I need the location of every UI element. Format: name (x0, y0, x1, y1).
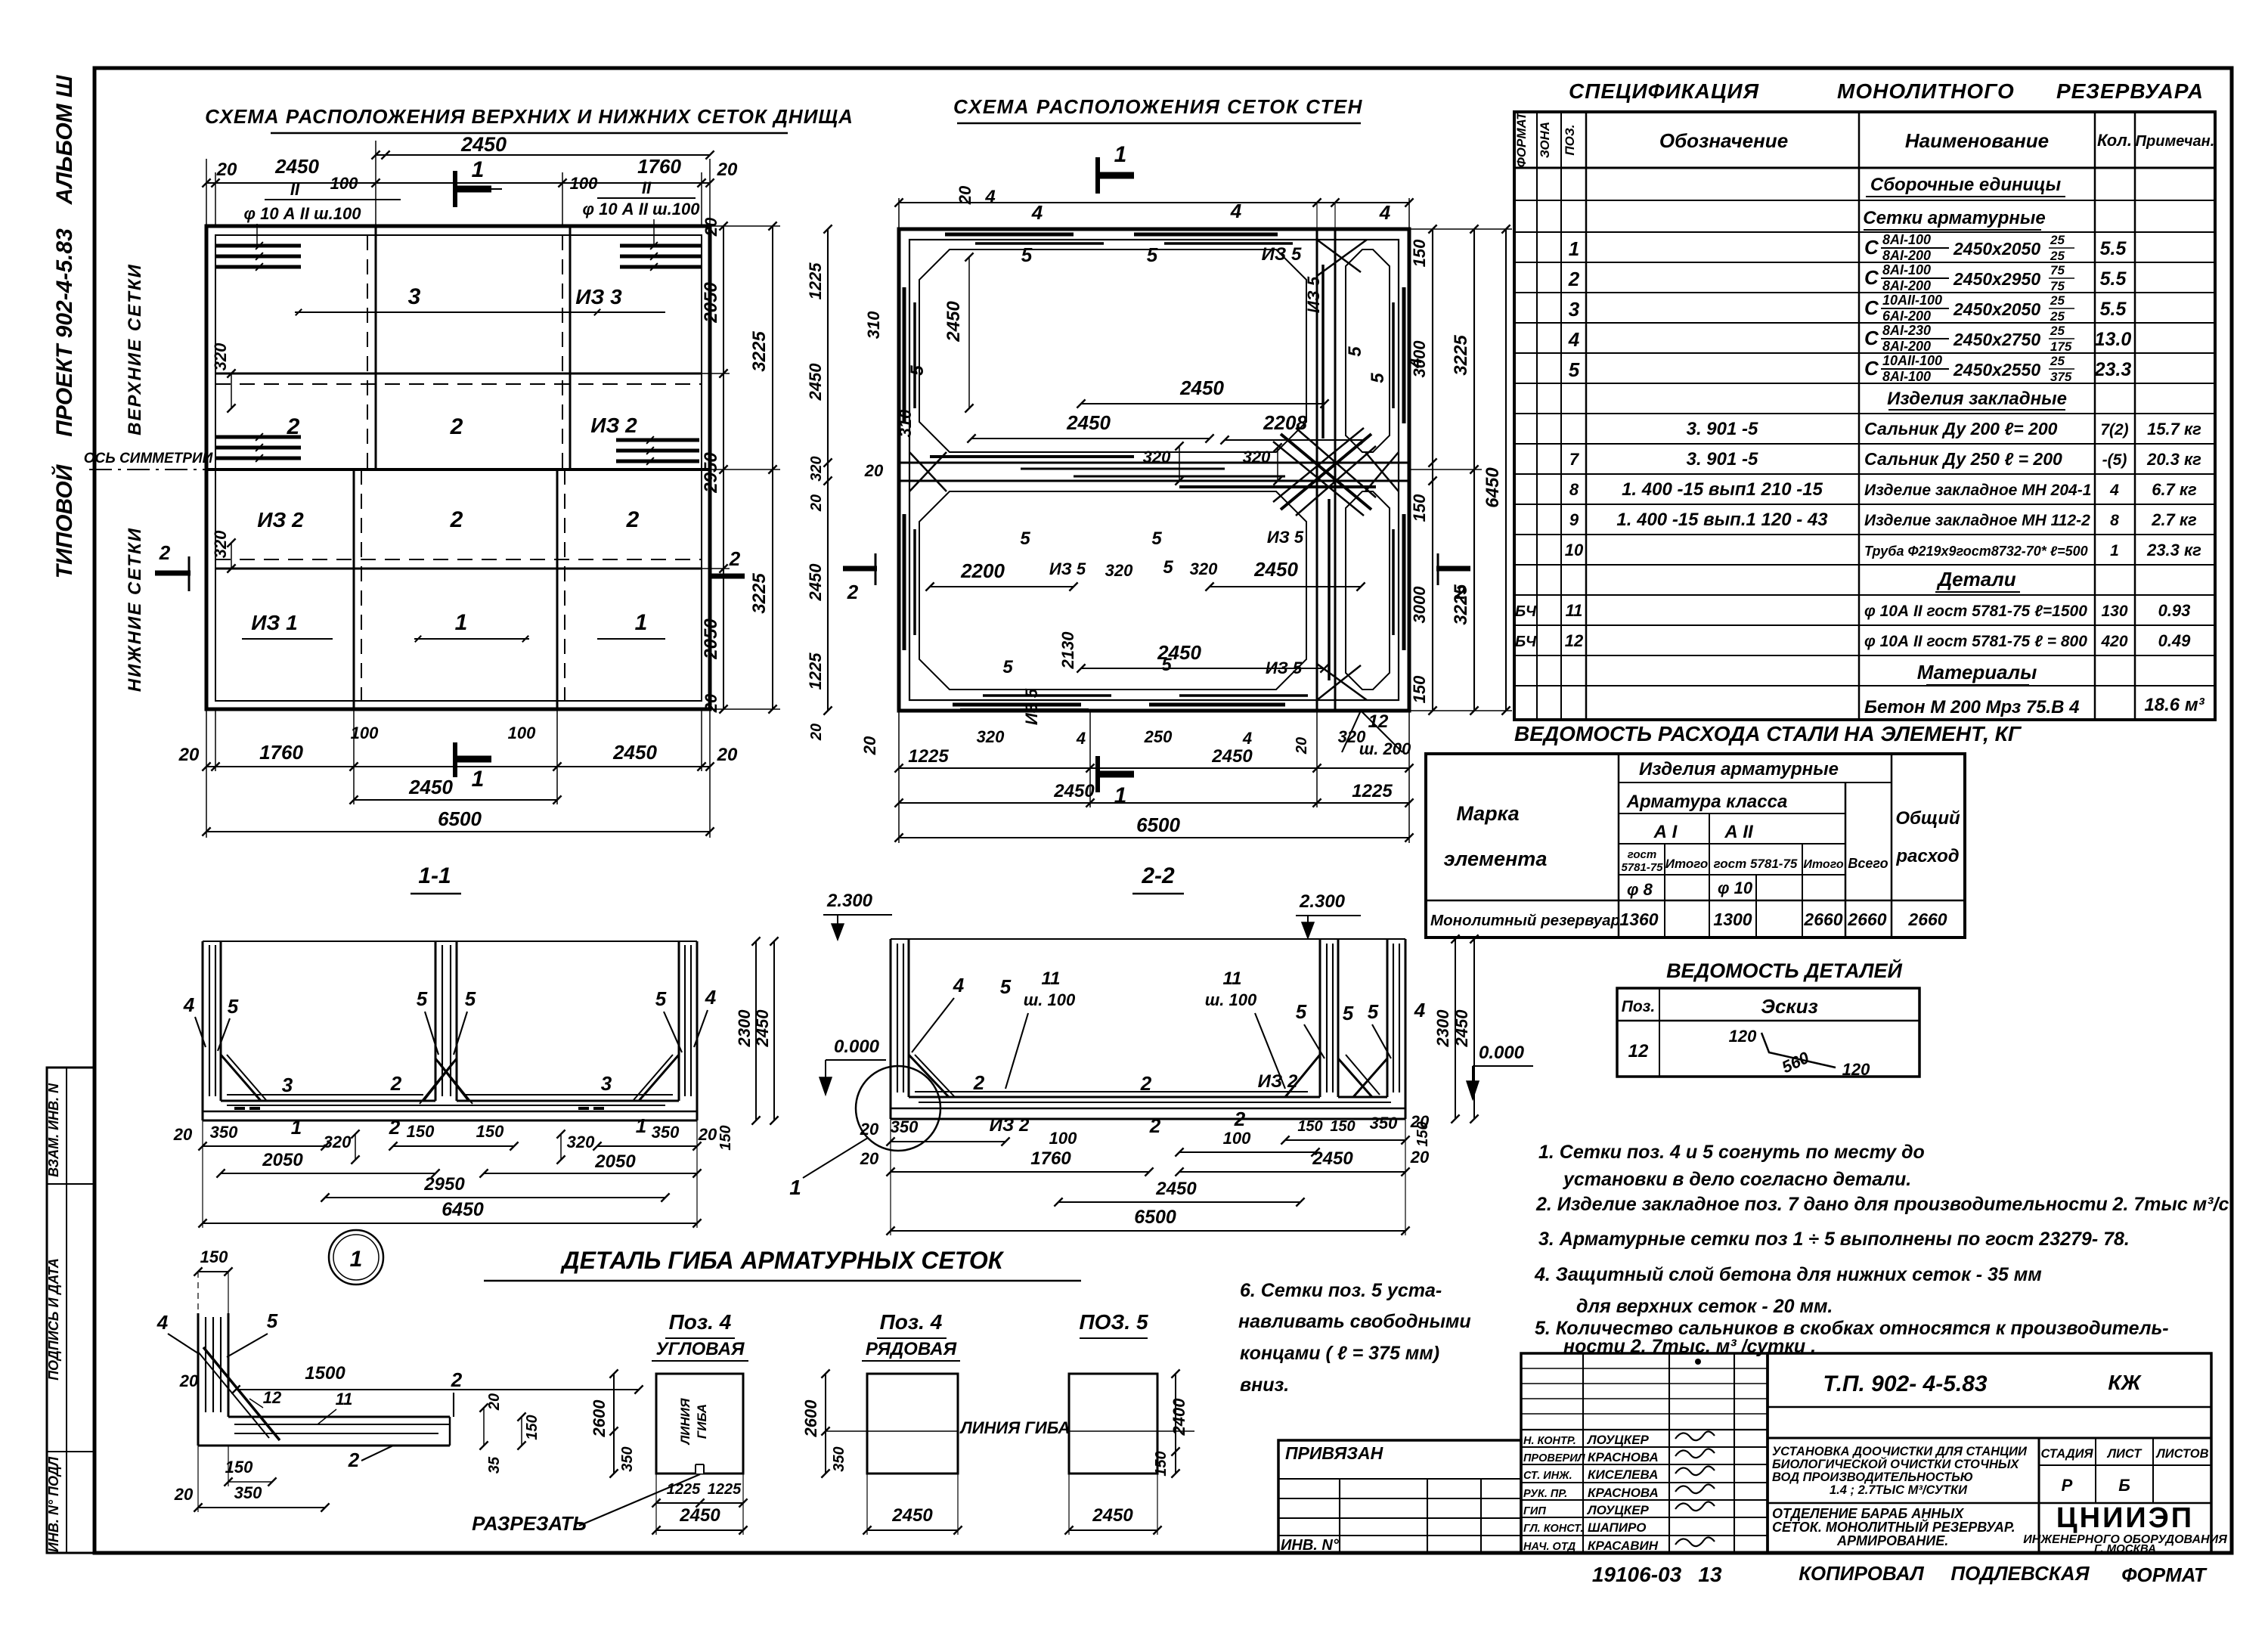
svg-text:КРАСАВИН: КРАСАВИН (1588, 1539, 1659, 1553)
svg-text:8АI-100: 8АI-100 (1882, 232, 1931, 247)
svg-text:для верхних сеток - 20: для верхних сеток - 20 мм. (1576, 1296, 1833, 1317)
svg-text:ФОРМАТ: ФОРМАТ (2121, 1563, 2208, 1586)
svg-text:25: 25 (2050, 293, 2065, 308)
svg-text:ЛИСТОВ: ЛИСТОВ (2155, 1447, 2208, 1461)
svg-text:150: 150 (1410, 494, 1429, 522)
svg-text:7(2): 7(2) (2100, 421, 2128, 439)
svg-text:ПОЗ.: ПОЗ. (1563, 124, 1577, 155)
svg-text:320: 320 (1190, 559, 1218, 578)
svg-text:1225: 1225 (806, 262, 825, 300)
svg-text:2450: 2450 (460, 133, 507, 156)
svg-text:250: 250 (1144, 727, 1173, 746)
svg-text:3000: 3000 (1410, 586, 1429, 624)
svg-text:2660: 2660 (1907, 910, 1947, 929)
svg-text:РУК. ПР.: РУК. ПР. (1523, 1488, 1567, 1500)
svg-text:ГИП: ГИП (1523, 1505, 1546, 1517)
svg-text:100: 100 (351, 724, 379, 742)
svg-text:КЖ: КЖ (2108, 1371, 2142, 1394)
svg-text:концами ( ℓ = 375 мм): концами ( ℓ = 375 мм) (1240, 1343, 1439, 1364)
svg-text:1. Сетки поз. 4 и 5 согну: 1. Сетки поз. 4 и 5 согнуть по месту до (1538, 1142, 1925, 1163)
svg-text:6.7 кг: 6.7 кг (2152, 480, 2197, 499)
svg-text:3: 3 (1569, 298, 1580, 321)
svg-text:2600: 2600 (801, 1399, 820, 1438)
svg-text:Т.П. 902- 4-5.83: Т.П. 902- 4-5.83 (1823, 1371, 1988, 1396)
svg-text:20: 20 (860, 1149, 879, 1168)
svg-text:ГИБА: ГИБА (695, 1404, 709, 1439)
svg-text:Примечан.: Примечан. (2136, 133, 2215, 150)
svg-text:11: 11 (1223, 968, 1242, 989)
svg-text:Итого: Итого (1665, 857, 1709, 871)
svg-text:5: 5 (1151, 528, 1162, 549)
svg-text:2450х2950: 2450х2950 (1953, 269, 2040, 289)
svg-text:150: 150 (1410, 675, 1429, 703)
svg-text:Кол.: Кол. (2097, 131, 2132, 150)
svg-text:0.93: 0.93 (2158, 601, 2191, 620)
svg-text:350: 350 (891, 1117, 919, 1136)
svg-text:ИЗ 2: ИЗ 2 (990, 1115, 1030, 1136)
svg-text:2450: 2450 (274, 155, 319, 178)
svg-text:НАЧ. ОТД: НАЧ. ОТД (1523, 1541, 1576, 1553)
svg-text:75: 75 (2050, 263, 2065, 277)
svg-text:2450х2550: 2450х2550 (1953, 360, 2040, 380)
svg-text:4: 4 (183, 993, 195, 1016)
svg-text:1. 400 -15 вып.1 120 - 43: 1. 400 -15 вып.1 120 - 43 (1616, 510, 1828, 530)
svg-text:2: 2 (390, 1072, 402, 1095)
svg-text:2050: 2050 (701, 282, 721, 324)
svg-text:ЦНИИЭП: ЦНИИЭП (2056, 1502, 2194, 1534)
svg-text:БЧ: БЧ (1515, 603, 1537, 620)
svg-text:ИЗ 2: ИЗ 2 (1258, 1071, 1298, 1092)
svg-text:5: 5 (1368, 1000, 1379, 1023)
svg-text:φ 8: φ 8 (1627, 880, 1653, 899)
svg-text:25: 25 (2050, 249, 2065, 263)
svg-text:РАЗРЕЗАТЬ: РАЗРЕЗАТЬ (472, 1512, 587, 1535)
svg-text:350: 350 (234, 1483, 262, 1502)
svg-text:320: 320 (808, 456, 825, 481)
svg-text:ЗОНА: ЗОНА (1538, 122, 1552, 158)
svg-text:150: 150 (407, 1122, 435, 1141)
svg-text:1. 400 -15 вып1 210 -15: 1. 400 -15 вып1 210 -15 (1622, 479, 1823, 500)
svg-text:130: 130 (2101, 603, 2127, 620)
svg-text:ШАПИРО: ШАПИРО (1588, 1520, 1647, 1535)
svg-text:1: 1 (2110, 542, 2119, 559)
svg-text:1-1: 1-1 (418, 863, 451, 888)
svg-text:75: 75 (2050, 279, 2065, 293)
svg-text:КИСЕЛЕВА: КИСЕЛЕВА (1588, 1467, 1658, 1482)
svg-text:РЕЗЕРВУАРА: РЕЗЕРВУАРА (2056, 79, 2204, 103)
svg-text:Общий: Общий (1895, 808, 1960, 829)
svg-text:ВЗАМ. ИНВ. N: ВЗАМ. ИНВ. N (46, 1083, 61, 1177)
svg-text:ВЕДОМОСТЬ РАСХОДА СТАЛИ НА Э: ВЕДОМОСТЬ РАСХОДА СТАЛИ НА ЭЛЕМЕНТ, КГ (1514, 722, 2022, 745)
svg-text:5: 5 (465, 987, 476, 1010)
svg-text:150: 150 (225, 1458, 253, 1477)
svg-text:6. Сетки поз. 5 уста-: 6. Сетки поз. 5 уста- (1240, 1280, 1442, 1301)
svg-text:8: 8 (2110, 512, 2119, 529)
svg-text:1: 1 (636, 1114, 646, 1137)
svg-text:СТ. ИНЖ.: СТ. ИНЖ. (1523, 1470, 1572, 1482)
svg-text:6АI-200: 6АI-200 (1882, 308, 1931, 324)
svg-text:II: II (290, 180, 300, 199)
svg-text:Итого: Итого (1803, 858, 1843, 871)
svg-text:1225: 1225 (908, 746, 949, 767)
svg-text:ИЗ 5: ИЗ 5 (1022, 688, 1041, 725)
svg-text:Поз.: Поз. (1622, 998, 1655, 1015)
svg-text:150: 150 (1297, 1118, 1322, 1135)
svg-text:Н. КОНТР.: Н. КОНТР. (1523, 1435, 1576, 1447)
svg-text:20: 20 (1294, 737, 1310, 755)
svg-text:Эскиз: Эскиз (1761, 995, 1817, 1018)
svg-text:1760: 1760 (637, 155, 681, 178)
svg-text:5: 5 (1345, 346, 1365, 357)
svg-text:Р: Р (2062, 1476, 2073, 1495)
svg-text:12: 12 (1368, 711, 1389, 732)
svg-text:2: 2 (729, 547, 741, 570)
svg-text:1360: 1360 (1619, 910, 1658, 929)
svg-text:150: 150 (1414, 1121, 1431, 1146)
svg-text:4: 4 (1568, 328, 1580, 351)
svg-text:2950: 2950 (423, 1174, 465, 1195)
svg-text:20: 20 (216, 160, 237, 180)
svg-text:2450: 2450 (1211, 746, 1253, 767)
svg-text:Сальник Ду 250 ℓ = 200: Сальник Ду 250 ℓ = 200 (1864, 449, 2062, 469)
svg-text:8АI-200: 8АI-200 (1882, 248, 1931, 263)
svg-text:φ 10А II гост 5781-75 ℓ=1500: φ 10А II гост 5781-75 ℓ=1500 (1864, 603, 2087, 620)
svg-text:ИЗ 1: ИЗ 1 (251, 611, 297, 634)
svg-text:350: 350 (652, 1123, 680, 1142)
svg-text:150: 150 (717, 1125, 734, 1150)
svg-text:1: 1 (472, 767, 485, 792)
svg-text:310: 310 (864, 311, 883, 339)
svg-text:11: 11 (336, 1390, 353, 1409)
svg-text:2: 2 (389, 1116, 401, 1139)
svg-text:20: 20 (860, 1120, 879, 1139)
svg-text:ЛОУЦКЕР: ЛОУЦКЕР (1586, 1433, 1650, 1447)
svg-text:5: 5 (1000, 975, 1012, 998)
svg-text:1225: 1225 (667, 1481, 701, 1498)
svg-text:25: 25 (2050, 324, 2065, 338)
svg-text:Монолитный резервуар: Монолитный резервуар (1430, 912, 1620, 929)
svg-text:гост: гост (1628, 848, 1656, 861)
svg-text:2660: 2660 (1847, 910, 1886, 929)
svg-text:2: 2 (626, 507, 640, 532)
svg-text:Поз. 4: Поз. 4 (669, 1310, 732, 1334)
svg-text:11: 11 (1042, 968, 1061, 989)
svg-text:19106-03: 19106-03 (1592, 1563, 1682, 1586)
svg-text:ДЕТАЛЬ ГИБА АРМАТУРНЫХ СЕТО: ДЕТАЛЬ ГИБА АРМАТУРНЫХ СЕТОК (560, 1247, 1005, 1274)
svg-text:3: 3 (601, 1072, 612, 1095)
svg-text:С: С (1864, 266, 1879, 289)
svg-text:3000: 3000 (1410, 340, 1429, 378)
svg-text:8АI-200: 8АI-200 (1882, 339, 1931, 354)
svg-text:320: 320 (211, 342, 230, 370)
svg-text:ГЛ. КОНСТ.: ГЛ. КОНСТ. (1523, 1523, 1583, 1535)
svg-text:СХЕМА РАСПОЛОЖЕНИЯ СЕТОК СТЕН: СХЕМА РАСПОЛОЖЕНИЯ СЕТОК СТЕН (953, 95, 1363, 118)
svg-text:ИЗ 5: ИЗ 5 (1304, 276, 1323, 313)
svg-text:СТАДИЯ: СТАДИЯ (2040, 1447, 2093, 1461)
svg-text:350: 350 (210, 1123, 238, 1142)
svg-text:375: 375 (2050, 370, 2072, 384)
svg-text:11: 11 (1566, 601, 1583, 620)
svg-text:ПРОЕКТ 902-4-5.83: ПРОЕКТ 902-4-5.83 (52, 228, 77, 437)
svg-text:12: 12 (263, 1388, 282, 1407)
svg-text:2450: 2450 (943, 301, 964, 342)
svg-text:5: 5 (1569, 358, 1580, 381)
svg-text:ИЗ 5: ИЗ 5 (1262, 244, 1302, 265)
svg-text:2: 2 (1140, 1072, 1152, 1095)
svg-text:5: 5 (1296, 1000, 1307, 1023)
svg-text:ИЗ 2: ИЗ 2 (257, 508, 304, 531)
svg-text:4: 4 (953, 974, 965, 996)
svg-text:РЯДОВАЯ: РЯДОВАЯ (866, 1339, 957, 1359)
svg-text:Б: Б (2118, 1476, 2130, 1495)
svg-text:5: 5 (1147, 243, 1158, 266)
svg-text:φ 10 А II ш.100: φ 10 А II ш.100 (244, 204, 362, 223)
svg-text:Сальник Ду 200 ℓ= 200: Сальник Ду 200 ℓ= 200 (1864, 419, 2058, 439)
svg-text:Материалы: Материалы (1917, 661, 2037, 683)
svg-text:1: 1 (789, 1176, 801, 1199)
svg-text:ш. 100: ш. 100 (1024, 990, 1076, 1009)
svg-text:6500: 6500 (1136, 813, 1180, 836)
svg-text:23.3: 23.3 (2094, 359, 2132, 380)
svg-text:150: 150 (1410, 239, 1429, 267)
svg-text:ИНВ. N°: ИНВ. N° (1281, 1537, 1340, 1554)
svg-text:420: 420 (2100, 633, 2127, 650)
svg-text:Марка: Марка (1456, 802, 1519, 825)
svg-text:2050: 2050 (594, 1151, 636, 1172)
svg-text:6450: 6450 (1483, 467, 1503, 508)
svg-text:ИЗ 5: ИЗ 5 (1267, 528, 1304, 547)
svg-text:20: 20 (717, 160, 738, 180)
svg-text:АЛЬБОМ Ш: АЛЬБОМ Ш (52, 75, 77, 205)
svg-text:2450: 2450 (806, 363, 825, 401)
svg-text:ПОДПИСЬ И ДАТА: ПОДПИСЬ И ДАТА (46, 1258, 61, 1381)
svg-text:Арматура класса: Арматура класса (1626, 792, 1788, 812)
svg-text:20: 20 (1410, 1148, 1430, 1167)
svg-text:12: 12 (1628, 1041, 1649, 1061)
svg-text:5: 5 (1368, 373, 1388, 383)
svg-text:320: 320 (1243, 448, 1271, 466)
svg-text:4: 4 (156, 1311, 169, 1334)
svg-text:ПОЗ. 5: ПОЗ. 5 (1079, 1310, 1148, 1334)
svg-text:23.3 кг: 23.3 кг (2146, 541, 2201, 559)
svg-text:1: 1 (472, 157, 485, 182)
svg-text:2: 2 (287, 414, 300, 439)
svg-text:КРАСНОВА: КРАСНОВА (1588, 1486, 1659, 1500)
svg-text:5: 5 (907, 365, 928, 376)
svg-text:25: 25 (2050, 309, 2065, 324)
svg-text:А II: А II (1724, 822, 1754, 842)
svg-text:ИЗ 2: ИЗ 2 (590, 414, 637, 437)
svg-text:ИНВ. N° ПОДЛ: ИНВ. N° ПОДЛ (46, 1456, 61, 1552)
svg-text:100: 100 (1223, 1129, 1251, 1148)
svg-text:2450: 2450 (1452, 1009, 1471, 1048)
svg-text:175: 175 (2050, 339, 2072, 354)
svg-text:ВЕРХНИЕ СЕТКИ: ВЕРХНИЕ СЕТКИ (125, 263, 145, 435)
svg-text:2450: 2450 (1253, 558, 1298, 581)
svg-text:2600: 2600 (590, 1399, 609, 1438)
svg-text:20: 20 (179, 1371, 199, 1390)
svg-text:2: 2 (1149, 1114, 1161, 1137)
svg-text:8: 8 (1569, 480, 1579, 499)
svg-text:Всего: Всего (1848, 856, 1888, 871)
svg-text:2450: 2450 (753, 1009, 772, 1048)
svg-text:2: 2 (159, 541, 171, 564)
svg-text:5: 5 (1021, 243, 1033, 266)
svg-text:10АII-100: 10АII-100 (1882, 353, 1942, 368)
svg-text:20: 20 (808, 494, 825, 512)
svg-text:2450: 2450 (612, 741, 657, 764)
svg-text:150: 150 (1153, 1451, 1170, 1476)
svg-text:ЛОУЦКЕР: ЛОУЦКЕР (1586, 1503, 1650, 1517)
svg-text:2200: 2200 (960, 559, 1005, 582)
svg-text:150: 150 (200, 1247, 228, 1266)
svg-text:2. Изделие закладное поз. 7: 2. Изделие закладное поз. 7 дано для про… (1535, 1194, 2229, 1215)
svg-text:20: 20 (178, 745, 200, 765)
svg-text:13.0: 13.0 (2095, 329, 2132, 350)
svg-text:2450: 2450 (679, 1505, 720, 1526)
svg-text:ЛИНИЯ ГИБА: ЛИНИЯ ГИБА (959, 1418, 1070, 1437)
svg-text:Наименование: Наименование (1905, 129, 2049, 152)
svg-text:Г. МОСКВА: Г. МОСКВА (2094, 1542, 2156, 1555)
svg-text:Сборочные единицы: Сборочные единицы (1870, 175, 2062, 195)
svg-text:3: 3 (282, 1074, 293, 1096)
svg-text:1225: 1225 (708, 1481, 742, 1498)
svg-text:2: 2 (1568, 268, 1580, 290)
svg-text:2300: 2300 (1433, 1009, 1452, 1048)
svg-text:5: 5 (1002, 657, 1013, 677)
svg-text:20: 20 (860, 736, 879, 755)
svg-text:120: 120 (1842, 1060, 1870, 1079)
svg-text:7: 7 (1569, 450, 1580, 469)
svg-text:ОСЬ СИММЕТРИИ: ОСЬ СИММЕТРИИ (84, 451, 213, 466)
svg-text:ПРИВЯЗАН: ПРИВЯЗАН (1285, 1443, 1383, 1463)
svg-text:навливать свободными: навливать свободными (1238, 1311, 1471, 1332)
svg-text:6450: 6450 (442, 1199, 484, 1220)
svg-text:2450: 2450 (1312, 1148, 1353, 1169)
svg-text:1500: 1500 (305, 1363, 345, 1384)
svg-text:2: 2 (847, 581, 859, 603)
svg-text:1225: 1225 (1352, 781, 1393, 801)
svg-text:СЕТОК. МОНОЛИТНЫЙ РЕЗЕРВУАР.: СЕТОК. МОНОЛИТНЫЙ РЕЗЕРВУАР. (1772, 1519, 2015, 1535)
svg-text:С: С (1864, 296, 1879, 319)
svg-text:5: 5 (1343, 1002, 1354, 1024)
svg-text:2.300: 2.300 (826, 891, 873, 911)
svg-text:4: 4 (1230, 200, 1242, 222)
svg-text:НИЖНИЕ СЕТКИ: НИЖНИЕ СЕТКИ (125, 527, 145, 692)
svg-text:1760: 1760 (1030, 1148, 1071, 1169)
svg-text:2.7 кг: 2.7 кг (2151, 510, 2197, 529)
svg-text:5: 5 (228, 995, 239, 1018)
svg-text:15.7 кг: 15.7 кг (2147, 420, 2201, 439)
svg-text:вниз.: вниз. (1240, 1374, 1289, 1396)
svg-text:5: 5 (655, 987, 667, 1010)
svg-text:20: 20 (174, 1485, 194, 1504)
svg-text:350: 350 (1370, 1114, 1398, 1133)
svg-text:2: 2 (450, 507, 463, 532)
svg-text:2: 2 (973, 1071, 985, 1094)
svg-text:ВЕДОМОСТЬ ДЕТАЛЕЙ: ВЕДОМОСТЬ ДЕТАЛЕЙ (1666, 958, 1902, 982)
svg-text:4: 4 (1242, 729, 1252, 748)
svg-text:Изделие закладное МН 204-1: Изделие закладное МН 204-1 (1864, 482, 2091, 499)
svg-text:8АI-100: 8АI-100 (1882, 262, 1931, 277)
svg-text:φ 10А II гост 5781-75 ℓ = 800: φ 10А II гост 5781-75 ℓ = 800 (1864, 633, 2087, 650)
svg-text:БИОЛОГИЧЕСКОЙ ОЧИСТКИ СТОЧН: БИОЛОГИЧЕСКОЙ ОЧИСТКИ СТОЧНЫХ (1772, 1456, 2019, 1471)
svg-text:150: 150 (1330, 1118, 1355, 1135)
svg-text:С: С (1864, 327, 1879, 349)
svg-text:1760: 1760 (259, 741, 303, 764)
svg-text:100: 100 (1049, 1129, 1077, 1148)
svg-text:2450х2750: 2450х2750 (1953, 330, 2040, 349)
svg-text:5: 5 (1161, 655, 1172, 675)
svg-text:25: 25 (2050, 354, 2065, 368)
svg-text:3. Арматурные сетки поз 1: 3. Арматурные сетки поз 1 ÷ 5 выполнены … (1538, 1229, 2130, 1250)
svg-text:2450: 2450 (1092, 1505, 1133, 1526)
svg-text:4: 4 (1076, 729, 1086, 748)
svg-text:20: 20 (486, 1393, 503, 1411)
svg-text:Обозначение: Обозначение (1659, 129, 1788, 152)
svg-text:320: 320 (211, 530, 230, 558)
svg-text:2: 2 (1455, 581, 1467, 603)
svg-text:2.300: 2.300 (1299, 891, 1346, 912)
svg-text:ВОД ПРОИЗВОДИТЕЛЬНОСТЬЮ: ВОД ПРОИЗВОДИТЕЛЬНОСТЬЮ (1772, 1470, 1973, 1484)
svg-text:ЛИНИЯ: ЛИНИЯ (678, 1398, 692, 1446)
svg-text:2450: 2450 (1179, 377, 1224, 399)
svg-text:Поз. 4: Поз. 4 (880, 1310, 943, 1334)
svg-text:5: 5 (417, 987, 428, 1010)
svg-text:УГЛОВАЯ: УГЛОВАЯ (655, 1339, 745, 1359)
svg-text:ЛИСТ: ЛИСТ (2107, 1447, 2143, 1461)
svg-text:1225: 1225 (806, 652, 825, 690)
svg-text:5: 5 (1163, 557, 1173, 578)
svg-text:13: 13 (1698, 1563, 1722, 1586)
svg-text:20: 20 (698, 1125, 717, 1144)
svg-text:35: 35 (486, 1456, 503, 1474)
svg-text:А I: А I (1653, 822, 1678, 842)
svg-text:Детали: Детали (1936, 568, 2015, 590)
svg-text:2050: 2050 (701, 618, 721, 660)
svg-text:2450х2050: 2450х2050 (1953, 299, 2040, 319)
svg-text:КРАСНОВА: КРАСНОВА (1588, 1450, 1659, 1464)
svg-text:5781-75: 5781-75 (1621, 861, 1663, 874)
svg-text:2450: 2450 (1053, 781, 1095, 801)
svg-text:20: 20 (808, 724, 825, 741)
svg-text:3: 3 (408, 284, 421, 309)
svg-text:1: 1 (1114, 783, 1127, 808)
svg-text:0.49: 0.49 (2158, 631, 2192, 650)
svg-text:1.4 ; 2.7ТЫС М³/СУТКИ: 1.4 ; 2.7ТЫС М³/СУТКИ (1830, 1483, 1968, 1497)
svg-text:350: 350 (619, 1446, 636, 1471)
svg-text:УСТАНОВКА ДООЧИСТКИ ДЛЯ СТАНЦ: УСТАНОВКА ДООЧИСТКИ ДЛЯ СТАНЦИИ (1772, 1445, 2028, 1458)
svg-text:2-2: 2-2 (1141, 863, 1175, 888)
svg-text:Изделия закладные: Изделия закладные (1887, 389, 2067, 409)
svg-text:БЧ: БЧ (1515, 634, 1537, 650)
svg-text:5.5: 5.5 (2100, 299, 2127, 320)
svg-text:1300: 1300 (1713, 910, 1752, 929)
svg-text:2: 2 (450, 414, 463, 439)
svg-text:5.5: 5.5 (2100, 268, 2127, 290)
svg-text:ш. 100: ш. 100 (1205, 990, 1257, 1009)
svg-text:2450: 2450 (891, 1505, 933, 1526)
svg-text:150: 150 (524, 1415, 541, 1440)
svg-text:20: 20 (864, 461, 884, 480)
svg-text:320: 320 (977, 727, 1005, 746)
svg-text:100: 100 (508, 724, 536, 742)
svg-text:20: 20 (956, 185, 974, 205)
svg-text:4: 4 (1414, 999, 1426, 1021)
svg-text:6500: 6500 (1134, 1207, 1176, 1228)
svg-text:5.5: 5.5 (2100, 238, 2127, 259)
svg-text:ПОДЛЕВСКАЯ: ПОДЛЕВСКАЯ (1950, 1562, 2090, 1585)
